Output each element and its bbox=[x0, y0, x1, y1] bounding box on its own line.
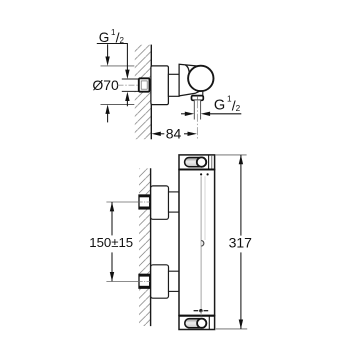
svg-text:G1/2: G1/2 bbox=[99, 28, 125, 46]
svg-text:G1/2: G1/2 bbox=[214, 95, 241, 114]
svg-text:Ø70: Ø70 bbox=[92, 77, 119, 93]
svg-text:84: 84 bbox=[166, 126, 182, 142]
svg-text:150±15: 150±15 bbox=[89, 235, 133, 250]
svg-text:317: 317 bbox=[229, 234, 253, 250]
